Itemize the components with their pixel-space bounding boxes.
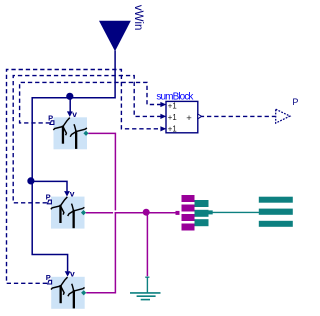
arrowhead sumBlock input3 — [160, 126, 166, 131]
ground pin tick — [145, 276, 149, 278]
wire: v branch to turbine1 — [69, 98, 71, 112]
sumBlock output notch — [198, 114, 202, 119]
source vWin triangle — [99, 21, 131, 52]
connector P output (diagram) — [276, 109, 290, 123]
svg-text:+: + — [186, 113, 192, 124]
node: v junction 1 — [66, 93, 73, 100]
svg-text:+1: +1 — [168, 101, 177, 110]
wire: dashed P signal turbine1 to sumBlock input1 — [20, 82, 161, 123]
transformer T1 primary terminal square — [176, 211, 180, 215]
connector P output turbine2 — [47, 200, 51, 204]
turbine U2 (middle) — [46, 188, 87, 228]
svg-text:v: v — [70, 188, 75, 198]
turbine U3 (bottom) — [46, 269, 87, 309]
arrowhead sumBlock input1 — [160, 102, 166, 107]
ground bars — [130, 292, 161, 294]
wire: purple AC bus turbine2 to transformer — [86, 212, 176, 214]
wire: v branch to turbine2 — [32, 181, 67, 191]
svg-text:vWin: vWin — [132, 5, 144, 31]
wire: purple drop to ground — [146, 213, 148, 276]
svg-text:P: P — [292, 97, 298, 107]
connector P output turbine1 — [50, 121, 54, 125]
connector P output turbine3 — [48, 280, 52, 284]
wire: dashed P signal turbine2 to sumBlock input2 — [13, 76, 161, 203]
svg-text:v: v — [70, 269, 75, 279]
arrowhead sumBlock input2 — [160, 114, 166, 119]
node: v junction 2 — [27, 177, 34, 184]
connector pin diamond turbine2 — [81, 210, 86, 215]
arrowhead into turbine3 v input — [65, 271, 71, 276]
transformer T1 secondary winding — [195, 200, 209, 226]
wire: teal transformer to grid bus — [213, 211, 260, 213]
wire: purple turbine3 output riser — [86, 212, 115, 293]
arrowhead into turbine2 v input — [64, 191, 70, 196]
svg-text:+1: +1 — [168, 113, 177, 122]
connector pin diamond turbine3 — [81, 290, 86, 295]
transformer T1 secondary terminal square — [209, 210, 213, 214]
grid infinite bus bars — [259, 197, 293, 227]
svg-text:v: v — [72, 109, 77, 119]
ground stem — [146, 277, 148, 293]
sumBlock body — [166, 101, 198, 132]
wire: purple turbine1 output riser — [88, 133, 115, 210]
node: purple bus junction — [143, 209, 150, 216]
connector pin diamond turbine1 — [83, 131, 88, 136]
arrowhead into turbine1 v input — [67, 111, 73, 117]
transformer T1 primary winding — [182, 195, 195, 231]
svg-text:+1: +1 — [168, 125, 177, 134]
wire: dashed P signal turbine3 to sumBlock input3 — [7, 70, 162, 284]
wire: dashed sumBlock output to P connector — [200, 115, 275, 117]
wire: vWin to v-bus (solid) — [32, 51, 115, 272]
turbine U1 (top) — [48, 109, 89, 149]
